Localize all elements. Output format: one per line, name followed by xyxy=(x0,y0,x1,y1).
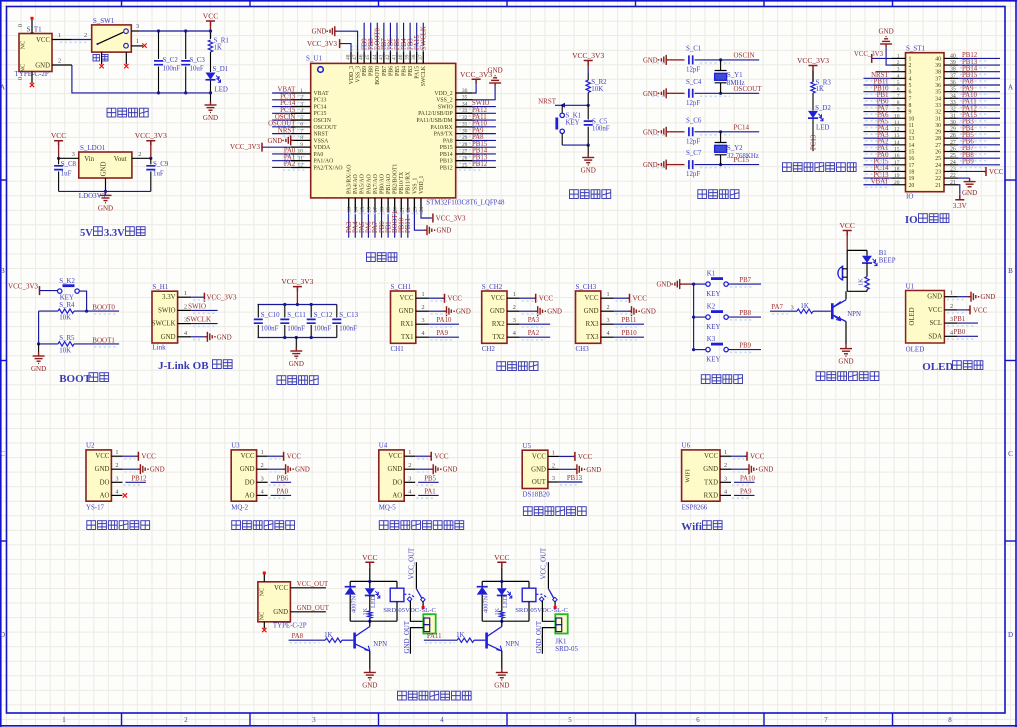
wire S_CH2 TX net PA2 xyxy=(520,336,551,338)
svg-text:2: 2 xyxy=(408,462,411,469)
svg-text:RXD: RXD xyxy=(704,492,718,499)
relay switch common PA8 xyxy=(415,562,417,589)
wire S_CH1 RX net PA10 xyxy=(429,323,460,325)
U3 pin 4 AO xyxy=(257,494,268,496)
svg-text:S_T1: S_T1 xyxy=(27,26,43,34)
S_LDO1 pin 2 Vout xyxy=(132,157,151,159)
svg-text:24: 24 xyxy=(950,160,956,166)
svg-text:11: 11 xyxy=(894,120,900,126)
power flag VCC alarm xyxy=(843,231,852,236)
svg-text:34: 34 xyxy=(935,96,941,102)
S_CH3 pin 3 RX3 xyxy=(601,323,614,325)
svg-text:17: 17 xyxy=(894,160,900,166)
header pin 10 xyxy=(892,117,906,119)
U2 pin 4 AO xyxy=(111,494,122,496)
svg-text:13: 13 xyxy=(909,136,915,142)
svg-text:PA0: PA0 xyxy=(277,488,289,495)
svg-text:GND: GND xyxy=(547,309,562,316)
power flag VCC header pin23 xyxy=(958,170,984,172)
ground GND header pin2 xyxy=(886,47,891,65)
capacitor S_C12 xyxy=(310,305,312,318)
header pin 23 xyxy=(944,170,958,172)
svg-text:VCC_3V3: VCC_3V3 xyxy=(281,277,313,286)
terminal block JK PA11 xyxy=(555,614,567,633)
svg-text:5: 5 xyxy=(909,83,912,89)
U1 pin 2 VCC xyxy=(944,309,957,311)
svg-text:BOOT: BOOT xyxy=(59,373,91,385)
svg-text:LED: LED xyxy=(502,595,509,608)
crystal S_Y2 xyxy=(719,130,722,133)
svg-text:3: 3 xyxy=(791,305,794,312)
svg-text:GND: GND xyxy=(35,62,50,69)
relay bottom rail PA8 xyxy=(350,620,397,622)
relay coil PA11 xyxy=(528,581,530,588)
caption 按键电路 xyxy=(701,375,710,384)
flyback diode 1N4007 PA11 xyxy=(481,581,483,586)
wire led to resistor alarm xyxy=(866,263,868,276)
svg-text:VCC_3V3: VCC_3V3 xyxy=(8,283,38,291)
svg-text:10K: 10K xyxy=(591,86,603,93)
svg-text:PB13: PB13 xyxy=(440,159,453,165)
wire U1 GND to ground xyxy=(957,296,968,298)
svg-text:C: C xyxy=(1008,450,1013,458)
svg-text:S_C11: S_C11 xyxy=(287,312,306,319)
frame row ticks and letters xyxy=(0,180,1016,541)
svg-text:GND: GND xyxy=(98,204,113,212)
U1 pin 1 GND xyxy=(944,296,957,298)
svg-text:29: 29 xyxy=(950,127,956,133)
svg-text:PA8: PA8 xyxy=(443,138,453,144)
svg-text:GND: GND xyxy=(656,282,671,289)
wire R3 to LED xyxy=(812,93,814,111)
svg-text:30: 30 xyxy=(950,120,956,126)
svg-text:6: 6 xyxy=(909,90,912,96)
svg-text:3: 3 xyxy=(607,317,610,324)
module U4 body xyxy=(379,450,404,501)
svg-text:KEY: KEY xyxy=(566,120,580,127)
switch bottom pins unconnected xyxy=(101,52,103,64)
svg-text:CH3: CH3 xyxy=(576,345,590,353)
ground GND boot xyxy=(38,344,40,352)
svg-text:PB14: PB14 xyxy=(440,152,453,158)
mcu pin 35 VSS_2 xyxy=(456,99,473,101)
U1 pin 3 SCL xyxy=(944,322,957,324)
ground GND alarm xyxy=(840,345,852,356)
header pin 30 xyxy=(944,124,958,126)
svg-text:3: 3 xyxy=(136,23,139,30)
wire TYPE-C VCC net VCC_OUT xyxy=(290,587,326,589)
svg-text:VCC_3V3: VCC_3V3 xyxy=(307,40,337,48)
S_T1 pin 2 GND xyxy=(52,64,72,66)
svg-text:5: 5 xyxy=(897,80,900,86)
svg-text:22: 22 xyxy=(950,173,956,179)
wire S_CH1 TX net PA9 xyxy=(429,336,460,338)
svg-text:GND: GND xyxy=(273,609,288,616)
svg-text:S_C10: S_C10 xyxy=(261,312,280,319)
switch 开关 label xyxy=(93,55,100,62)
svg-text:NRST: NRST xyxy=(538,98,557,106)
svg-text:3: 3 xyxy=(408,475,411,482)
mcu pin 28 PB15 xyxy=(456,146,473,148)
svg-text:PA1: PA1 xyxy=(424,488,435,495)
key S_K1 xyxy=(561,105,563,113)
svg-text:24: 24 xyxy=(419,207,425,213)
connector TYPE-C power body (relay) xyxy=(258,582,291,622)
wire U4 VCC flag xyxy=(415,455,429,457)
svg-text:21: 21 xyxy=(935,183,941,189)
svg-text:S_K1: S_K1 xyxy=(566,113,582,120)
svg-text:GND: GND xyxy=(289,360,304,368)
resistor 1K led PA11 xyxy=(500,611,504,618)
svg-text:1: 1 xyxy=(513,291,516,298)
svg-text:NRST: NRST xyxy=(314,132,329,138)
wire H1 GND to ground xyxy=(191,336,204,338)
svg-text:32: 32 xyxy=(950,107,956,113)
svg-text:26: 26 xyxy=(950,147,956,153)
svg-text:1K: 1K xyxy=(362,607,369,615)
svg-text:33: 33 xyxy=(950,100,956,106)
svg-text:6: 6 xyxy=(696,717,700,724)
svg-text:14: 14 xyxy=(909,143,915,149)
transistor NPN relay driver PA8 xyxy=(355,627,370,651)
svg-text:1K: 1K xyxy=(800,303,808,310)
svg-text:2: 2 xyxy=(909,63,912,69)
mcu pin 13 PA3/RX/AO xyxy=(348,198,350,211)
svg-text:27: 27 xyxy=(462,149,468,155)
wire collector to rail xyxy=(845,291,847,299)
svg-text:DO: DO xyxy=(392,479,402,486)
svg-text:GND: GND xyxy=(437,228,452,235)
svg-text:5V: 5V xyxy=(80,228,93,239)
net label PA8 base wire xyxy=(289,639,326,641)
svg-text:37: 37 xyxy=(950,73,956,79)
svg-text:GND: GND xyxy=(217,334,232,341)
mcu pin 37 SWCLK xyxy=(422,52,424,64)
svg-text:S_U1: S_U1 xyxy=(306,55,322,63)
mcu pin 7 NRST xyxy=(291,133,311,135)
svg-text:OLED: OLED xyxy=(906,346,925,354)
svg-text:PB9: PB9 xyxy=(962,159,974,166)
mcu pin 25 PB12 xyxy=(456,166,473,168)
svg-text:4007N: 4007N xyxy=(350,595,357,613)
svg-text:2: 2 xyxy=(513,304,516,311)
svg-text:TX1: TX1 xyxy=(401,334,413,341)
display U1 body xyxy=(906,291,945,344)
ground GND for S_C7 xyxy=(661,160,669,170)
key K2 xyxy=(694,316,706,318)
resistor S_R3 xyxy=(812,71,814,83)
power flag 3.3V header pin21 xyxy=(958,185,960,195)
svg-text:PA7: PA7 xyxy=(771,304,783,311)
svg-text:3: 3 xyxy=(909,70,912,76)
svg-text:PA4/AO: PA4/AO xyxy=(353,174,359,194)
svg-text:7: 7 xyxy=(897,93,900,99)
svg-text:21: 21 xyxy=(399,207,405,213)
svg-text:VCC: VCC xyxy=(388,453,402,460)
svg-text:VCC: VCC xyxy=(51,131,66,140)
svg-text:23: 23 xyxy=(950,166,956,172)
U3 pin 2 GND xyxy=(257,468,268,470)
svg-text:GND: GND xyxy=(399,308,414,315)
svg-text:28: 28 xyxy=(462,142,468,148)
switch contacts xyxy=(124,29,129,48)
svg-text:3: 3 xyxy=(422,317,425,324)
resistor 1K led PA8 xyxy=(368,611,372,618)
svg-text:PB2/BOOT1: PB2/BOOT1 xyxy=(393,164,399,194)
svg-text:VCC_3V3: VCC_3V3 xyxy=(230,143,260,151)
relay top rail PA11 xyxy=(482,580,529,582)
svg-text:6: 6 xyxy=(897,87,900,93)
svg-text:9: 9 xyxy=(909,110,912,116)
header pin 2 xyxy=(892,64,906,66)
wire U1 SCL net PB1 xyxy=(957,322,978,324)
svg-text:RX3: RX3 xyxy=(586,321,599,328)
svg-text:4: 4 xyxy=(440,717,444,724)
svg-text:VCC: VCC xyxy=(141,453,156,461)
svg-text:VCC: VCC xyxy=(434,453,449,461)
svg-text:VCC: VCC xyxy=(362,553,377,562)
svg-text:NPN: NPN xyxy=(505,641,519,648)
svg-text:NC: NC xyxy=(20,64,27,73)
svg-text:1: 1 xyxy=(950,290,953,297)
power flag VCC_3V3 filter xyxy=(293,287,302,292)
svg-text:1K: 1K xyxy=(324,632,332,639)
svg-text:3: 3 xyxy=(72,151,75,158)
svg-text:SWCLK: SWCLK xyxy=(152,321,176,328)
svg-text:8: 8 xyxy=(948,717,952,724)
svg-text:VCC_OUT: VCC_OUT xyxy=(541,547,548,580)
svg-text:1: 1 xyxy=(136,38,139,45)
svg-text:S_H1: S_H1 xyxy=(152,283,168,291)
header pin 28 xyxy=(944,137,958,139)
led in alarm branch xyxy=(862,256,872,263)
svg-text:25: 25 xyxy=(950,153,956,159)
svg-text:VCC_3V3: VCC_3V3 xyxy=(207,294,237,302)
svg-text:12pF: 12pF xyxy=(686,66,700,73)
svg-text:2: 2 xyxy=(84,32,87,39)
power flag VCC_3V3 runled xyxy=(809,66,818,71)
svg-text:PB11: PB11 xyxy=(622,317,637,324)
svg-text:29: 29 xyxy=(462,135,468,141)
capacitor S_C3 xyxy=(185,31,187,59)
U6 pin 3 TXD xyxy=(720,481,731,483)
svg-text:S_SW1: S_SW1 xyxy=(93,17,115,25)
S_CH1 pin 2 GND xyxy=(416,310,429,312)
svg-text:S_K2: S_K2 xyxy=(59,278,75,285)
capacitor S_C5 xyxy=(587,105,589,119)
svg-text:32.768KHz: 32.768KHz xyxy=(727,153,759,160)
svg-text:CH1: CH1 xyxy=(391,345,405,353)
svg-text:12pF: 12pF xyxy=(686,138,700,145)
svg-text:1: 1 xyxy=(897,53,900,59)
terminal block JK PA8 xyxy=(423,614,435,633)
svg-text:15: 15 xyxy=(909,150,915,156)
svg-text:Link: Link xyxy=(152,344,166,352)
S_CH3 pin 4 TX3 xyxy=(601,336,614,338)
wire S_T1 VCC to switch xyxy=(72,39,92,41)
power flag VCC_3V3 for LDO out xyxy=(146,141,155,146)
svg-text:3.3V: 3.3V xyxy=(953,202,967,210)
header pin 17 xyxy=(892,164,906,166)
svg-text:B: B xyxy=(1008,267,1013,275)
U2 pin 1 VCC xyxy=(111,455,122,457)
svg-text:1K: 1K xyxy=(858,278,865,286)
header pin 19 xyxy=(892,177,906,179)
svg-text:12: 12 xyxy=(298,162,304,168)
svg-text:S_D1: S_D1 xyxy=(213,66,229,73)
svg-text:S_C13: S_C13 xyxy=(339,312,358,319)
svg-text:GND: GND xyxy=(643,162,658,169)
S_T1 bottom shield pin xyxy=(31,72,33,84)
svg-text:1: 1 xyxy=(184,290,187,297)
power flag VCC relay PA11 xyxy=(497,562,506,567)
svg-text:PB13: PB13 xyxy=(567,475,583,482)
wire mcu VDD_2 to VCC_3V3 flag xyxy=(473,84,476,93)
mcu pin 26 PB13 xyxy=(456,160,473,162)
svg-text:GND: GND xyxy=(759,467,774,474)
svg-text:S_C7: S_C7 xyxy=(686,150,702,157)
svg-text:13: 13 xyxy=(347,207,353,213)
svg-text:47: 47 xyxy=(352,54,358,60)
U2 pin 2 GND xyxy=(111,468,122,470)
svg-text:1: 1 xyxy=(62,717,65,724)
relay switch NC stub PA8 xyxy=(422,601,424,606)
S_CH2 pin 1 VCC xyxy=(507,297,520,299)
mcu pin 22 PB11/RX xyxy=(407,198,409,211)
ground GND header pin22 xyxy=(958,177,970,179)
mcu pin 46 PB9 xyxy=(363,52,365,64)
wire key K2 to net PB8 xyxy=(728,316,761,318)
svg-text:SWIO: SWIO xyxy=(158,307,175,314)
wire U5 OUT net PB13 xyxy=(559,481,583,483)
svg-text:31: 31 xyxy=(935,116,941,122)
svg-text:GND: GND xyxy=(586,467,601,474)
svg-text:33: 33 xyxy=(935,103,941,109)
svg-text:GND: GND xyxy=(240,466,255,473)
svg-text:10: 10 xyxy=(298,149,304,155)
module U5 temperature DS18B20 xyxy=(522,450,548,488)
svg-text:7: 7 xyxy=(824,717,828,724)
svg-text:22: 22 xyxy=(406,207,412,213)
svg-text:39: 39 xyxy=(405,54,411,60)
svg-text:25: 25 xyxy=(935,156,941,162)
svg-text:18: 18 xyxy=(380,207,386,213)
svg-text:GND: GND xyxy=(312,29,327,36)
wire switch NO contact to terminal PA11 xyxy=(542,601,555,622)
mcu pin 30 PA9/TX xyxy=(456,133,473,135)
svg-text:PA9: PA9 xyxy=(437,330,449,337)
svg-text:RX1: RX1 xyxy=(401,321,414,328)
svg-text:4: 4 xyxy=(607,330,610,337)
wire key to C5 node xyxy=(562,144,588,146)
wire key K2 to BOOT0 node xyxy=(79,291,86,311)
ground GND relay PA11 xyxy=(496,669,508,680)
svg-text:12pF: 12pF xyxy=(686,171,700,178)
connector S_H1 body xyxy=(152,291,178,343)
header pin 37 xyxy=(944,77,958,79)
svg-text:PA15: PA15 xyxy=(415,66,421,79)
svg-text:40: 40 xyxy=(398,54,404,60)
svg-text:PB7: PB7 xyxy=(739,277,751,284)
buzzer B1 xyxy=(838,267,843,280)
svg-text:K2: K2 xyxy=(707,304,716,311)
caption 复位电路 xyxy=(570,190,579,199)
keys left bus wire xyxy=(693,284,695,350)
svg-text:Wifi: Wifi xyxy=(681,521,702,533)
svg-text:GND: GND xyxy=(643,91,658,98)
svg-text:PA3: PA3 xyxy=(528,317,540,324)
svg-text:SWCLK: SWCLK xyxy=(421,65,427,86)
relay switch arm PA8 xyxy=(404,593,411,595)
svg-text:PA11/USB/DM: PA11/USB/DM xyxy=(416,118,452,124)
svg-text:OSCOUT: OSCOUT xyxy=(314,125,338,131)
connector S_T1 TYPE-C-2P body xyxy=(19,34,52,72)
S_H1 pin 2 SWIO xyxy=(178,309,192,311)
svg-text:4: 4 xyxy=(300,108,303,114)
svg-text:PA2: PA2 xyxy=(528,330,540,337)
svg-text:1uF: 1uF xyxy=(153,170,164,177)
svg-text:VCC: VCC xyxy=(95,453,109,460)
header pin 22 xyxy=(944,177,958,179)
mcu pin 44 BOOT0 xyxy=(376,52,378,64)
svg-text:12: 12 xyxy=(894,127,900,133)
svg-text:S_CH3: S_CH3 xyxy=(576,283,597,291)
svg-text:GND: GND xyxy=(31,365,46,373)
S_H1 pin 1 3.3V xyxy=(178,296,192,298)
svg-text:S_CH1: S_CH1 xyxy=(391,283,412,291)
caption 温度检测模块 xyxy=(523,507,532,516)
mcu pin 47 VSS_3 xyxy=(357,52,359,64)
svg-text:26: 26 xyxy=(462,156,468,162)
svg-text:VDD_3: VDD_3 xyxy=(349,66,355,84)
svg-text:PA12/USB/DP: PA12/USB/DP xyxy=(418,111,453,117)
header pin 7 xyxy=(892,97,906,99)
S_LDO1 pin 1 GND xyxy=(105,178,107,191)
wire S_CH3 RX net PB11 xyxy=(614,323,645,325)
svg-text:17: 17 xyxy=(909,163,915,169)
svg-text:VSS_3: VSS_3 xyxy=(355,66,361,83)
svg-text:GND: GND xyxy=(581,167,596,175)
svg-text:DS18B20: DS18B20 xyxy=(523,492,551,499)
svg-text:10: 10 xyxy=(909,116,915,122)
mcu pin 32 PA11/USB/DM xyxy=(456,119,473,121)
header pin 38 xyxy=(944,71,958,73)
svg-text:39: 39 xyxy=(950,60,956,66)
svg-text:S_CH2: S_CH2 xyxy=(482,283,503,291)
mcu pin 40 PB4 xyxy=(403,52,405,64)
ground at mcu VSSA pin 8 xyxy=(291,139,294,141)
capacitor S_C13 xyxy=(336,305,338,318)
mcu S_U1 body xyxy=(311,63,456,198)
svg-text:4: 4 xyxy=(261,488,264,495)
net label PA7 base wire xyxy=(770,310,797,312)
caption 程序运行指示灯 xyxy=(783,163,792,172)
svg-text:A: A xyxy=(0,84,5,92)
svg-text:22: 22 xyxy=(935,176,941,182)
power flag VCC relay PA8 xyxy=(365,562,374,567)
svg-text:100nF: 100nF xyxy=(339,326,357,333)
mcu pin 45 PB8 xyxy=(370,52,372,64)
mcu pin 21 PB10/TX xyxy=(400,198,402,211)
ground GND LDO xyxy=(100,191,112,202)
caption 滤波电路 xyxy=(277,376,286,385)
svg-text:SRD-05: SRD-05 xyxy=(555,646,578,653)
svg-text:TYPE-C-2P: TYPE-C-2P xyxy=(273,623,307,630)
svg-text:4: 4 xyxy=(513,330,516,337)
svg-text:1: 1 xyxy=(552,449,555,456)
net label NRST wire xyxy=(555,104,588,106)
svg-text:IO: IO xyxy=(905,214,918,226)
